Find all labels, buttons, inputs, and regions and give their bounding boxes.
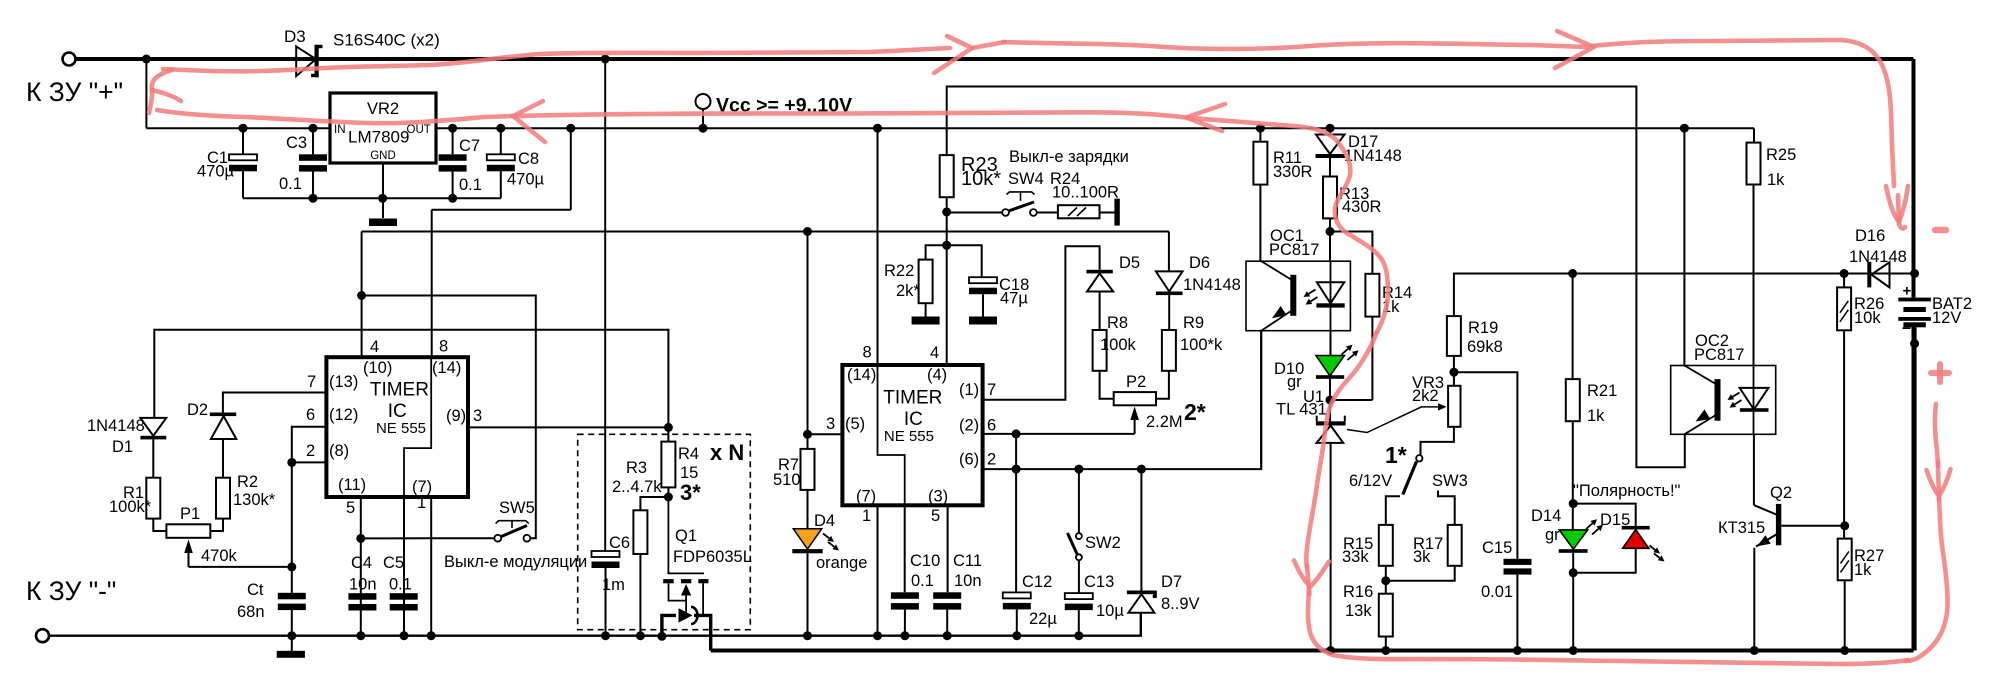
red path C down — [1906, 498, 1948, 661]
pin label (5) t2 — [845, 415, 865, 433]
svg-text:IC: IC — [904, 409, 923, 430]
node pin2 sw2 — [1074, 465, 1083, 474]
svg-text:1N4148: 1N4148 — [1183, 276, 1241, 294]
pin label (7) t1 — [412, 478, 432, 496]
svg-text:R8: R8 — [1107, 314, 1128, 332]
svg-text:3*: 3* — [680, 480, 701, 505]
node R23-SW4 — [942, 207, 951, 216]
label C6 — [609, 534, 630, 552]
label VR2 — [367, 100, 399, 118]
terminal К ЗУ + — [63, 53, 76, 66]
label R11 — [1273, 149, 1302, 167]
terminal Vcc — [696, 94, 711, 128]
svg-text:(10): (10) — [363, 359, 392, 377]
node pin3 mid rail — [803, 227, 812, 236]
wire VR3 bottom to SW3 — [1421, 427, 1454, 455]
wire R22 bottom — [925, 303, 927, 316]
label Ct — [247, 581, 264, 599]
label C6 value 1m — [602, 576, 625, 594]
label R17 value 3k — [1413, 548, 1431, 566]
led arrows D14 — [1586, 519, 1603, 534]
label D6 — [1189, 254, 1210, 272]
svg-text:VR2: VR2 — [367, 100, 399, 118]
label Выкл-е модуляции — [444, 553, 587, 571]
label R21 value 1k — [1587, 407, 1605, 425]
pin label (8) — [329, 442, 349, 460]
svg-text:100*k: 100*k — [1180, 336, 1223, 354]
pin label 4 t2 — [930, 344, 939, 362]
label D7 — [1161, 573, 1182, 591]
ground symbol VR2 — [369, 219, 397, 227]
label SW3 — [1432, 472, 1468, 490]
wire top bus (+) — [76, 59, 1914, 298]
svg-text:3k: 3k — [1413, 548, 1431, 566]
svg-text:gr: gr — [1545, 526, 1560, 544]
node pin7ext bus t1 — [427, 631, 436, 640]
node C3 top — [309, 124, 318, 133]
wire R16 bottom — [1385, 637, 1387, 651]
label IC t2 — [904, 409, 923, 430]
node D16 right — [1910, 269, 1919, 278]
wire D2 top link — [223, 393, 327, 413]
capacitor C7 — [439, 154, 467, 171]
node top bus to C6 riser — [601, 55, 610, 64]
label OC2 PC817 — [1694, 346, 1744, 364]
svg-text:C7: C7 — [459, 137, 480, 155]
label D17 — [1348, 133, 1378, 151]
svg-text:NE 555: NE 555 — [884, 428, 934, 445]
wire R26 top — [1843, 274, 1845, 288]
label C11 value 10n — [954, 572, 982, 590]
svg-text:D14: D14 — [1531, 507, 1561, 525]
wire R22 link — [926, 245, 947, 259]
svg-text:330R: 330R — [1273, 163, 1313, 181]
wire R27 bottom — [1844, 580, 1846, 650]
wire battery bottom — [1913, 327, 1917, 650]
node D14 bus — [1569, 646, 1578, 655]
label C15 value 0.01 — [1481, 583, 1513, 601]
wire D5 to R8 — [1099, 292, 1101, 331]
pin label (12) — [329, 406, 358, 424]
resistor R3 — [633, 510, 647, 554]
label R1 value 100k* — [109, 498, 152, 516]
node pin8 t2 — [873, 124, 882, 133]
node D17 top — [1326, 124, 1335, 133]
wire from top bus down to Vin rail — [145, 59, 147, 128]
resistor R26 slashed — [1837, 287, 1851, 330]
wire pin6 drop — [1015, 434, 1017, 469]
label NE 555 t2 — [884, 428, 934, 445]
wire Q1 drain thick — [694, 615, 711, 650]
wire R19 bottom — [1453, 356, 1455, 386]
svg-text:0.01: 0.01 — [1481, 583, 1513, 601]
capacitor Ct — [278, 593, 306, 610]
pin label (2) t2 — [959, 417, 979, 435]
pin label 2 — [306, 442, 315, 460]
wire internal t2 — [878, 365, 905, 505]
capacitor C6 — [592, 551, 620, 568]
svg-text:5: 5 — [346, 499, 355, 517]
label R23 value 10k* — [961, 168, 1001, 190]
node R27 bus — [1840, 646, 1849, 655]
red arrow C — [1927, 462, 1951, 500]
LED OC1 — [1316, 261, 1344, 331]
pin label GND — [370, 150, 396, 162]
wire pin1 t2 — [877, 505, 879, 635]
resistor R19 — [1447, 316, 1461, 356]
svg-text:(14): (14) — [432, 359, 461, 377]
diode D2 — [210, 413, 237, 440]
svg-text:КТ315: КТ315 — [1718, 519, 1765, 537]
svg-text:69k8: 69k8 — [1467, 338, 1503, 356]
label D15 — [1600, 511, 1630, 529]
wire pin3 t2 — [808, 433, 843, 435]
capacitor C3 — [299, 154, 327, 171]
switch SW5 — [494, 521, 530, 542]
wire C13 bottom — [1078, 610, 1080, 636]
LED D15 red — [1622, 526, 1650, 548]
wire C10 drop — [904, 505, 906, 592]
wire R2 to P1 — [210, 519, 223, 531]
wire D1 top link — [154, 330, 668, 428]
svg-text:"Полярность!": "Полярность!" — [1573, 482, 1681, 500]
svg-text:8: 8 — [863, 344, 872, 362]
pin label 2 t2 — [987, 451, 996, 469]
svg-text:0.1: 0.1 — [459, 176, 482, 194]
wire C15 top link — [1454, 372, 1518, 559]
wire pin3 t1 — [468, 426, 668, 428]
terminal К ЗУ - — [36, 629, 49, 642]
label Q2 — [1770, 484, 1792, 502]
svg-text:P2: P2 — [1126, 373, 1146, 391]
label NE 555 — [376, 420, 426, 437]
wire R7 to D4 — [807, 490, 809, 529]
svg-text:R19: R19 — [1468, 319, 1498, 337]
wiper P1 arrow — [184, 540, 193, 567]
label D16 — [1855, 227, 1885, 245]
label TL 431 — [1276, 401, 1327, 419]
wire pin5 to SW5 — [361, 537, 430, 539]
label R24 — [1050, 170, 1080, 188]
wire Vcc feed to timer1 pin 8 — [432, 128, 571, 357]
label D3 — [284, 27, 306, 46]
wire SW3 left contact — [1386, 496, 1400, 525]
LED D10 green — [1316, 356, 1345, 379]
capacitor C8 — [487, 154, 515, 171]
timer IC box U2 NE555 #1 — [326, 357, 468, 497]
resistor R21 — [1566, 379, 1580, 421]
svg-text:(13): (13) — [329, 373, 358, 391]
switch SW2 — [1068, 533, 1082, 560]
svg-text:10n: 10n — [349, 576, 377, 594]
resistor R15 — [1379, 525, 1393, 566]
timer IC box U3 NE555 #2 — [842, 365, 982, 505]
label D17 1N4148 — [1344, 147, 1402, 165]
svg-text:NE 555: NE 555 — [376, 420, 426, 437]
wire D10 to TL431 — [1329, 379, 1331, 422]
wire ctrl node down — [291, 462, 293, 592]
node pin2 t1 — [287, 458, 296, 467]
svg-text:(5): (5) — [845, 415, 865, 433]
label C4 value 10n — [349, 576, 377, 594]
svg-text:C4: C4 — [351, 554, 372, 572]
node R4 top — [664, 423, 673, 432]
wire pin6 t2 — [983, 433, 1135, 435]
label D10 gr — [1287, 373, 1302, 391]
svg-text:(4): (4) — [927, 366, 947, 384]
pin label (4) t2 — [927, 366, 947, 384]
resistor R9 — [1162, 330, 1176, 371]
label C7 — [459, 137, 480, 155]
label C8 — [518, 150, 539, 168]
resistor R17 — [1448, 525, 1462, 566]
svg-text:1k: 1k — [1587, 407, 1605, 425]
label Vcc >= +9..10V — [716, 95, 852, 117]
svg-text:3: 3 — [826, 415, 835, 433]
node C7 top — [448, 124, 457, 133]
svg-text:1: 1 — [417, 494, 426, 512]
red path A mid — [1003, 42, 1588, 49]
node R16 bus — [1381, 646, 1390, 655]
capacitor C10 — [891, 592, 919, 609]
svg-text:PC817: PC817 — [1694, 346, 1744, 364]
label D6 1N4148 — [1183, 276, 1241, 294]
svg-text:33k: 33k — [1342, 548, 1369, 566]
svg-text:3: 3 — [473, 407, 482, 425]
capacitor C18 — [969, 277, 997, 294]
label D2 — [187, 401, 208, 419]
label R25 value 1k — [1767, 171, 1785, 189]
diode D16 — [1867, 262, 1889, 288]
capacitor C15 — [1504, 559, 1532, 575]
svg-text:TIMER: TIMER — [370, 380, 429, 401]
red current path A (top wire) — [163, 48, 950, 71]
wire pin2 t2 — [983, 331, 1262, 469]
svg-text:R25: R25 — [1766, 146, 1796, 164]
wire R25 top — [1753, 128, 1755, 142]
svg-text:C13: C13 — [1084, 573, 1114, 591]
svg-text:8..9V: 8..9V — [1161, 595, 1200, 613]
pin label (6) t2 — [959, 451, 979, 469]
wire D2 to R2 — [222, 439, 224, 478]
label Выкл-е зарядки — [1009, 148, 1129, 166]
label S16S40C (x2) — [333, 31, 440, 50]
svg-text:GND: GND — [370, 150, 396, 162]
wire upper feedback rail — [1454, 274, 1915, 317]
diode D1 — [140, 418, 166, 440]
svg-text:(6): (6) — [959, 451, 979, 469]
svg-text:К ЗУ "+": К ЗУ "+" — [26, 77, 123, 107]
capacitor C12 — [1003, 592, 1031, 609]
label C12 value 22µ — [1029, 610, 1057, 628]
resistor R16 — [1379, 594, 1393, 637]
svg-text:4: 4 — [370, 338, 379, 356]
svg-text:R22: R22 — [884, 262, 914, 280]
label D5 — [1119, 254, 1140, 272]
pin label 7 t2 — [987, 381, 996, 399]
label 2* — [1184, 399, 1206, 425]
label R14 value 1k — [1382, 298, 1400, 316]
svg-text:5: 5 — [931, 507, 940, 525]
wire pin5 t2 — [947, 505, 949, 592]
red start curl — [149, 70, 181, 113]
svg-text:R9: R9 — [1183, 314, 1204, 332]
node Q2 base — [1840, 521, 1849, 530]
label R25 — [1766, 146, 1796, 164]
svg-text:D15: D15 — [1600, 511, 1630, 529]
label R3 — [626, 459, 647, 477]
led arrows OC1 — [1304, 290, 1318, 305]
node C8 top — [496, 124, 505, 133]
pin label 6 t2 — [987, 417, 996, 435]
label Ct value 68n — [237, 603, 265, 621]
wiper P2 arrow — [1130, 407, 1139, 434]
svg-text:(12): (12) — [329, 406, 358, 424]
svg-text:C3: C3 — [286, 134, 307, 152]
node junction top at x146 — [142, 55, 151, 64]
svg-text:C6: C6 — [609, 534, 630, 552]
pin label (14) t2 — [847, 366, 876, 384]
pin label IN — [334, 124, 346, 136]
svg-text:orange: orange — [816, 554, 867, 572]
svg-text:470µ: 470µ — [197, 163, 235, 181]
transistor OC1 photo — [1261, 261, 1296, 331]
transistor Q1 mosfet — [663, 579, 708, 615]
pin label 5 t2 — [931, 507, 940, 525]
pin label 5 — [346, 499, 355, 517]
resistor R2 — [216, 478, 230, 519]
label OC1 — [1270, 227, 1304, 245]
svg-text:D2: D2 — [187, 401, 208, 419]
label C18 — [999, 276, 1029, 294]
svg-text:470µ: 470µ — [507, 171, 545, 189]
wire riser top bus to C6 — [604, 59, 606, 551]
svg-text:2*: 2* — [1184, 399, 1206, 425]
LED OC2 — [1740, 366, 1769, 435]
wire R3 bottom — [639, 554, 641, 636]
resistor R27 slashed — [1838, 539, 1852, 581]
node C3 bottom — [309, 194, 318, 203]
label C10 — [910, 552, 940, 570]
wire OC1 led to D10 — [1330, 331, 1332, 356]
label R4 — [678, 445, 699, 463]
node pin5 bus — [356, 631, 365, 640]
svg-text:SW3: SW3 — [1432, 472, 1468, 490]
svg-text:12V: 12V — [1932, 309, 1961, 327]
label R1 — [123, 484, 144, 502]
svg-text:510: 510 — [773, 471, 801, 489]
svg-text:Выкл-е модуляции: Выкл-е модуляции — [444, 553, 587, 571]
wire mid rail left drop — [361, 232, 363, 358]
label R24 value 10..100R — [1052, 184, 1119, 202]
label VR3 value 2k2 — [1412, 387, 1439, 405]
node Q2 bus — [1750, 646, 1759, 655]
diode D17 — [1316, 128, 1345, 158]
node D4 bus — [803, 631, 812, 640]
wire Vcc rail left segment — [146, 127, 330, 129]
svg-text:C8: C8 — [518, 150, 539, 168]
wire C12 drop — [1015, 469, 1017, 592]
svg-text:2k2: 2k2 — [1412, 387, 1439, 405]
svg-text:47µ: 47µ — [1000, 290, 1028, 308]
wire to SW4 — [947, 212, 1002, 214]
regulator VR2 LM7809 — [330, 93, 436, 163]
svg-text:(7): (7) — [856, 488, 876, 506]
svg-text:68n: 68n — [237, 603, 265, 621]
svg-text:OUT: OUT — [407, 124, 431, 136]
label P2 — [1126, 373, 1146, 391]
label Q1 FDP6035L — [673, 548, 752, 566]
potentiometer P2 — [1114, 392, 1156, 405]
label C5 — [383, 554, 404, 572]
wire pin6 t1 — [292, 427, 327, 463]
node C7 bottom — [448, 194, 457, 203]
svg-text:2k*: 2k* — [896, 282, 920, 300]
wire R25 to OC2 — [1753, 185, 1755, 366]
svg-text:130k*: 130k* — [233, 491, 276, 509]
svg-text:x N: x N — [710, 440, 744, 465]
wire C18 link — [947, 245, 982, 277]
resistor R23 — [940, 155, 954, 197]
red arrowhead A2 — [1555, 31, 1594, 68]
label C5 value 0.1 — [389, 576, 412, 594]
wire SW3 right contact — [1438, 491, 1455, 525]
svg-text:R3: R3 — [626, 459, 647, 477]
svg-text:D3: D3 — [284, 27, 306, 46]
svg-text:6/12V: 6/12V — [1349, 472, 1392, 490]
svg-text:К ЗУ "-": К ЗУ "-" — [26, 576, 116, 606]
dashed box xN — [578, 434, 751, 629]
pin label (11) — [338, 476, 366, 494]
transistor Q2 — [1754, 504, 1845, 547]
ground bar below bus — [277, 651, 305, 658]
switch SW4 — [1002, 192, 1037, 216]
svg-text:6: 6 — [987, 417, 996, 435]
red minus sign — [1935, 227, 1946, 234]
red path B to D17 — [1186, 118, 1388, 333]
pin label (13) — [329, 373, 358, 391]
label LM7809 — [348, 128, 409, 147]
node TL431 bus — [1326, 646, 1335, 655]
svg-text:7: 7 — [987, 381, 996, 399]
label R23 — [961, 154, 998, 176]
node pin2 c12 — [1012, 465, 1021, 474]
wire R8 to P2 — [1100, 371, 1114, 399]
wire pin2 t1 — [292, 461, 327, 463]
svg-text:(8): (8) — [329, 442, 349, 460]
ground symbol C18 — [969, 317, 997, 325]
wire C11 bottom — [946, 610, 948, 636]
svg-text:C12: C12 — [1022, 573, 1052, 591]
label C7 value 0.1 — [459, 176, 482, 194]
wire R1 to P1 — [153, 519, 166, 531]
svg-text:D4: D4 — [814, 512, 835, 530]
label R3 value 2..4.7k — [612, 478, 662, 496]
wire C1 stub — [242, 128, 244, 198]
red arrowhead B2 — [1186, 104, 1225, 131]
pin label (9) — [446, 407, 466, 425]
label D16 1N4148 — [1849, 248, 1907, 266]
wire R14 bottom — [1371, 317, 1373, 400]
label R8 value 100k — [1100, 336, 1137, 354]
label R4 value 15 — [680, 464, 698, 482]
label R27 — [1854, 547, 1884, 565]
svg-text:IC: IC — [388, 401, 407, 422]
label R9 value 100*k — [1180, 336, 1223, 354]
diode D5 — [1086, 270, 1113, 292]
svg-text:SW5: SW5 — [499, 499, 535, 517]
pin label 7 — [307, 373, 316, 391]
